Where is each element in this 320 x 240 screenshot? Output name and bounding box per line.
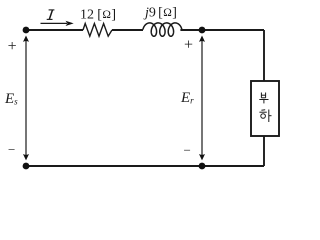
node dot bottom-right Er-	[199, 163, 206, 170]
Es voltage arrow shaft	[25, 41, 27, 155]
inductor L j9-ohm coil	[143, 23, 182, 36]
svg-text:−: −	[8, 142, 15, 157]
current arrow I shaft	[41, 22, 68, 24]
right branch upper wire	[263, 30, 265, 81]
load box	[251, 81, 279, 136]
svg-text:Er: Er	[180, 90, 194, 106]
wire resistor-to-inductor	[112, 29, 143, 31]
Er voltage arrow shaft	[201, 41, 203, 155]
wire inductor-to-top-right-corner	[180, 29, 264, 31]
right branch lower wire	[263, 136, 265, 166]
svg-text:−: −	[184, 143, 191, 158]
current arrow I head	[66, 21, 74, 26]
svg-text:Es: Es	[4, 91, 18, 107]
node dot bottom-left	[23, 163, 30, 170]
node dot top-left	[23, 27, 30, 34]
load label Hangul BU	[259, 93, 268, 104]
svg-text:12[Ω]: 12[Ω]	[80, 8, 116, 23]
Er arrow head down	[199, 154, 205, 160]
svg-text:+: +	[184, 36, 193, 53]
Es arrow head down	[23, 154, 29, 160]
Er arrow head up	[199, 36, 205, 42]
current label I	[47, 10, 55, 20]
load label Hangul HA	[259, 110, 271, 123]
svg-text:j9[Ω]: j9[Ω]	[143, 6, 177, 21]
resistor R 12-ohm zigzag	[83, 24, 112, 37]
wire top-left (node to resistor)	[26, 29, 83, 31]
svg-text:+: +	[8, 38, 17, 55]
bottom wire	[26, 165, 264, 167]
node dot top-right Er+	[199, 27, 206, 34]
Es arrow head up	[23, 36, 29, 42]
